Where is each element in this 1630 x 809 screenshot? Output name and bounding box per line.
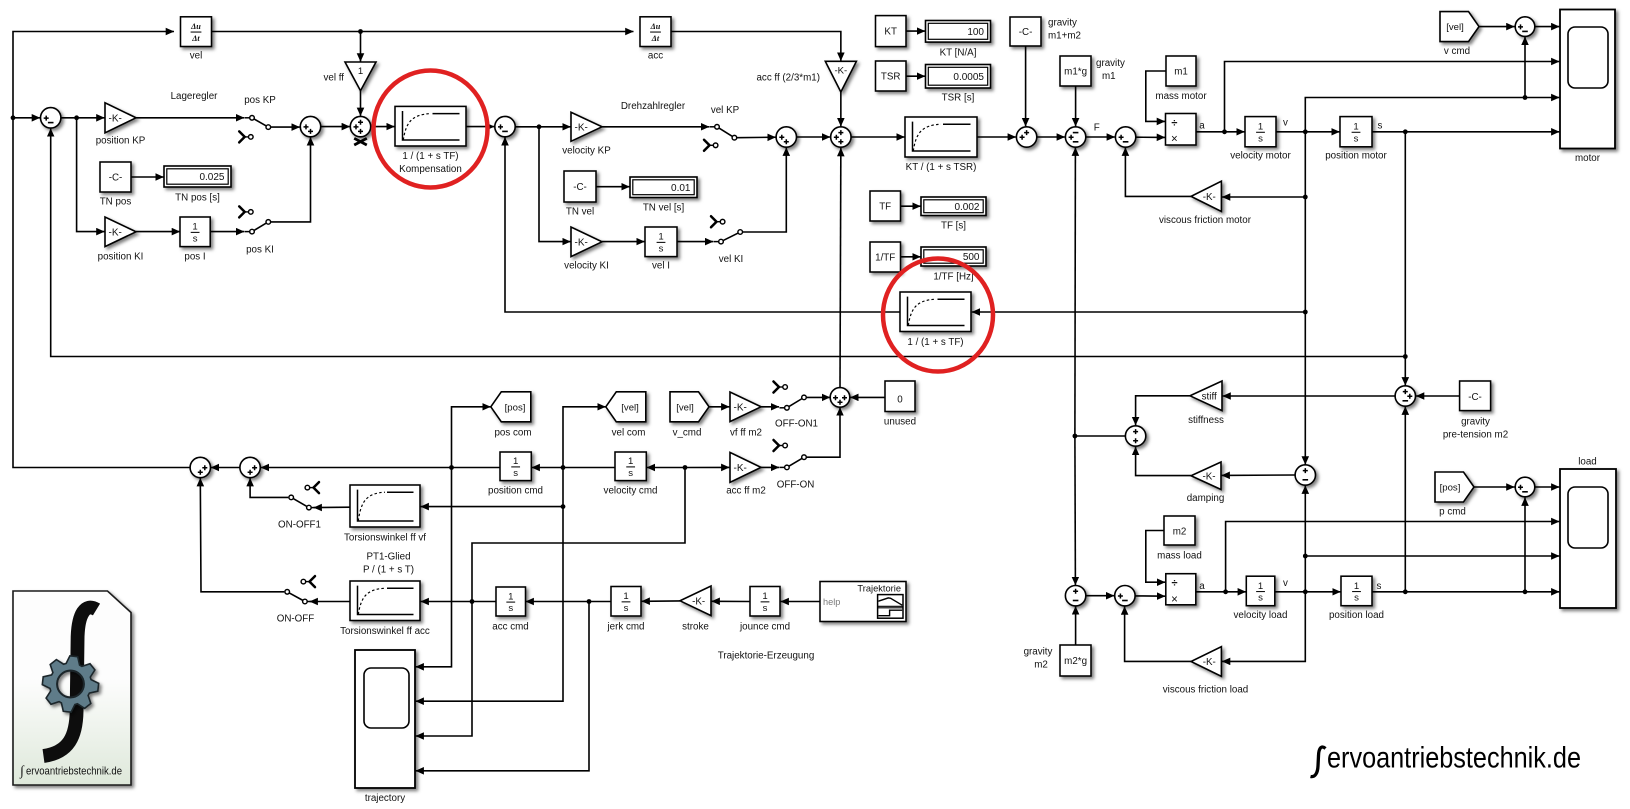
- block: Torsionswinkel ff vf (PT1): [350, 485, 420, 527]
- node: junction v motor: [1303, 129, 1308, 134]
- svg-text:KT [N/A]: KT [N/A]: [940, 48, 977, 59]
- scope: motor: [1560, 10, 1615, 149]
- wire: v load down into viscous friction load gain: [1222, 592, 1305, 662]
- wire: spring-damper sum output left to coupling vertical: [1075, 435, 1126, 437]
- switch: vel KI: [723, 233, 738, 240]
- wire: TN pos constant to display: [131, 176, 164, 178]
- node: top junction above vel ff: [358, 29, 363, 34]
- wire: sum4 to velocity KP: [515, 126, 570, 128]
- svg-text:m1*g: m1*g: [1064, 66, 1087, 77]
- svg-text:-K-: -K-: [109, 113, 122, 124]
- wire: v-compare sum to damping gain: [1222, 474, 1296, 476]
- sum S3: position controller + vel ff: [350, 116, 370, 136]
- node: junction s load: [1403, 589, 1408, 594]
- block: Kompensation 1/(1+s TF): [395, 106, 466, 146]
- wire: junction right into acc ff m2 gain: [685, 466, 729, 468]
- wire: stroke gain to jerk cmd: [642, 600, 680, 602]
- svg-text:Δt: Δt: [191, 34, 200, 43]
- node: junction viscous friction motor tap: [1303, 195, 1308, 200]
- sum S6: current command sum: [831, 127, 851, 147]
- svg-text:PT1-Glied: PT1-Glied: [366, 552, 410, 563]
- sum S1: position error sum: [41, 108, 61, 128]
- svg-text:P / (1 + s T): P / (1 + s T): [363, 565, 414, 576]
- svg-text:gravity: gravity: [1461, 417, 1490, 428]
- block: velocity feedback filter 1/(1+s TF): [900, 292, 971, 332]
- sum S8: minus gravity m1, minus coupling: [1065, 127, 1085, 147]
- wire: OFF-ON right and up into unused sum bottom: [807, 407, 840, 457]
- svg-text:viscous friction load: viscous friction load: [1163, 685, 1249, 696]
- wire: sum1 output to position KP: [61, 117, 105, 119]
- wire: gravity m1+m2 constant down into sum7 top: [1025, 46, 1027, 126]
- svg-text:0.002: 0.002: [954, 202, 979, 213]
- svg-text:Torsionswinkel ff acc: Torsionswinkel ff acc: [340, 626, 430, 637]
- switch: vel KP: [719, 128, 732, 136]
- wire: tap into Torsionswinkel ff vf block: [421, 506, 563, 508]
- svg-text:Δu: Δu: [650, 22, 661, 31]
- gain: position KI: [105, 217, 136, 247]
- constant: 0 (unused): [885, 381, 915, 412]
- gain: acc ff (2/3*m1) (pointing down): [825, 61, 856, 92]
- svg-text:0.025: 0.025: [199, 172, 224, 183]
- svg-text:m2*g: m2*g: [1064, 656, 1087, 667]
- svg-text:Kompensation: Kompensation: [399, 164, 462, 175]
- svg-text:[pos]: [pos]: [505, 402, 526, 413]
- svg-text:s: s: [513, 468, 518, 479]
- wire: m1*g down into sum8 top: [1075, 86, 1077, 126]
- wire: load force sum1 to sum2: [1086, 595, 1114, 597]
- wire: acc block to acc ff gain: [671, 32, 841, 61]
- svg-text:s: s: [1354, 133, 1359, 144]
- tag: vel com [vel] (Goto): [606, 392, 646, 422]
- node: junction velocity feedback tap: [1303, 310, 1308, 315]
- switch: pos KP: [254, 119, 266, 126]
- display: TN pos [s] = 0.025: [164, 166, 231, 187]
- svg-text:load: load: [1578, 456, 1597, 467]
- svg-text:1/TF [Hz]: 1/TF [Hz]: [933, 272, 974, 283]
- svg-text:KT / (1 + s TSR): KT / (1 + s TSR): [906, 162, 977, 173]
- block: pos I integrator: [180, 217, 210, 247]
- svg-text:gravity: gravity: [1096, 58, 1125, 69]
- tag: v_cmd [vel] (From): [670, 392, 709, 422]
- svg-text:velocity cmd: velocity cmd: [604, 486, 658, 497]
- svg-text:position load: position load: [1329, 610, 1384, 621]
- svg-text:m1: m1: [1102, 71, 1116, 82]
- svg-text:÷: ÷: [1171, 578, 1177, 590]
- block: velocity cmd integrator: [615, 452, 646, 481]
- svg-text:1: 1: [508, 591, 513, 602]
- svg-text:stiffness: stiffness: [1188, 415, 1224, 426]
- svg-text:[vel]: [vel]: [1446, 22, 1464, 33]
- svg-text:s: s: [659, 243, 664, 254]
- svg-text:acc ff m2: acc ff m2: [726, 486, 766, 497]
- svg-text:vel: vel: [190, 51, 203, 62]
- svg-text:s: s: [508, 603, 513, 614]
- node: junction coupling force: [1073, 434, 1078, 439]
- svg-text:1: 1: [658, 232, 663, 243]
- svg-text:pre-tension m2: pre-tension m2: [1443, 430, 1508, 441]
- wire: v_cmd tag into vf ff m2 gain: [709, 406, 729, 408]
- gain: damping (pointing left): [1191, 462, 1221, 490]
- svg-text:ervoantriebstechnik.de: ervoantriebstechnik.de: [26, 766, 122, 778]
- red highlight circle around Kompensation: [374, 71, 488, 188]
- svg-text:×: ×: [1171, 134, 1178, 146]
- block: jounce cmd integrator: [750, 587, 780, 617]
- switch: ON-OFF (mirrored): [289, 593, 302, 600]
- wire: branch down to velocity KI: [539, 127, 571, 242]
- sum SU: unused feed-forward sum: [830, 388, 850, 408]
- svg-text:s: s: [763, 603, 768, 614]
- wire: vel KP switch to sum5 left: [737, 136, 776, 139]
- wire: velocity load to position load (v): [1275, 591, 1341, 593]
- svg-text:-K-: -K-: [109, 227, 122, 238]
- constant: TF: [870, 191, 901, 221]
- node: junction a load: [1223, 589, 1228, 594]
- block: Trajektorie source with help link: [820, 582, 906, 622]
- block: KT / (1 + s TSR): [905, 117, 977, 157]
- wire: pos cmd down into trajectory scope input 1: [416, 468, 452, 667]
- svg-text:pos KP: pos KP: [244, 95, 276, 106]
- wire: OFF-ON1 to unused sum left: [807, 396, 830, 398]
- wire: m2*g up into load force sum1 bottom: [1075, 606, 1077, 644]
- svg-text:-C-: -C-: [109, 173, 123, 184]
- svg-text:position KP: position KP: [96, 136, 146, 147]
- wire: KT constant to display: [906, 30, 925, 32]
- wire: vel cmd down to torsion branch and trajectory input 2: [416, 468, 563, 702]
- svg-text:vel KP: vel KP: [711, 105, 740, 116]
- svg-text:s: s: [193, 233, 198, 244]
- svg-text:Drehzahlregler: Drehzahlregler: [621, 101, 686, 112]
- svg-text:gravity: gravity: [1048, 18, 1077, 29]
- wire: command feed to top-left (pos cmd up the left edge into vel differentiator): [13, 32, 190, 468]
- node: junction vel cmd: [561, 465, 566, 470]
- sum S2: pos KP + pos KI: [300, 116, 320, 136]
- svg-text:vel KI: vel KI: [719, 254, 744, 265]
- svg-text:position KI: position KI: [98, 252, 144, 263]
- svg-text:v_cmd: v_cmd: [673, 427, 702, 438]
- wire: acc ff m2 gain to OFF-ON switch: [761, 466, 779, 468]
- svg-text:s: s: [1258, 133, 1263, 144]
- switch: OFF-ON1: [789, 399, 802, 407]
- wire: sum5 to sum6: [797, 136, 831, 138]
- display: TSR [s] = 0.0005: [926, 65, 991, 89]
- wire: position KP to pos KP switch: [136, 117, 244, 119]
- constant: m2 (mass load): [1164, 516, 1195, 545]
- switch: ON-OFF1 (mirrored): [293, 499, 306, 507]
- wire: tap into viscous friction motor gain: [1222, 196, 1305, 198]
- svg-text:motor: motor: [1575, 153, 1601, 164]
- node: junction after sum1: [74, 115, 79, 120]
- wire: velocity KP to vel KP switch: [602, 126, 709, 128]
- wire: TSR constant to display: [906, 75, 925, 77]
- svg-text:a: a: [1199, 121, 1205, 132]
- svg-text:s: s: [1354, 593, 1359, 604]
- wire: velocity motor to position motor (v): [1276, 131, 1340, 133]
- svg-text:v: v: [1283, 118, 1288, 129]
- svg-text:1: 1: [628, 456, 633, 467]
- svg-text:s: s: [628, 468, 633, 479]
- tag: pos com [pos] (Goto): [491, 392, 531, 422]
- wire: viscous friction load into load force sum2 bottom: [1125, 607, 1191, 662]
- svg-text:Δt: Δt: [651, 34, 660, 43]
- sum S10: v cmd compare: [1515, 17, 1535, 37]
- sum SF1: load force sum (coupling - gravity): [1065, 586, 1085, 606]
- svg-text:-C-: -C-: [1019, 27, 1033, 38]
- wire: acc ff gain into sum6 top: [840, 92, 842, 126]
- svg-text:velocity motor: velocity motor: [1230, 151, 1291, 162]
- wire: load product output (a) to velocity load: [1196, 591, 1246, 593]
- wire: sum2 to sum3: [321, 126, 350, 128]
- svg-text:vel com: vel com: [612, 427, 646, 438]
- sum S9: minus viscous friction motor: [1115, 127, 1135, 147]
- wire: acc signal into velocity cmd integrator: [647, 467, 685, 469]
- gain: stiffness (pointing left): [1190, 381, 1222, 411]
- wire: pos cmd up into pos com tag: [452, 407, 491, 468]
- logo: big integral glyph: [44, 608, 97, 756]
- wire: acc cmd down into trajectory scope input 3: [416, 602, 472, 737]
- block: position motor integrator: [1340, 117, 1372, 147]
- svg-text:0.0005: 0.0005: [953, 72, 984, 83]
- wire: vel cmd up into vel com tag: [563, 407, 606, 468]
- svg-text:unused: unused: [884, 416, 916, 427]
- svg-text:-K-: -K-: [1203, 192, 1216, 203]
- svg-text:s: s: [1377, 581, 1382, 592]
- logo: servoantriebstechnik.de card: [13, 591, 131, 785]
- svg-text:jounce cmd: jounce cmd: [739, 622, 790, 633]
- block: vel I integrator: [645, 227, 677, 257]
- constant: TN pos (-C-): [100, 162, 131, 192]
- svg-text:1: 1: [1258, 581, 1263, 592]
- display: TN vel [s] = 0.01: [630, 177, 697, 198]
- node: junction torsion ff vf tap: [561, 504, 566, 509]
- wire: product output (a) to velocity motor: [1196, 131, 1245, 133]
- wire: sum7 to sum8: [1037, 136, 1065, 138]
- display: KT [N/A] = 100: [926, 21, 991, 43]
- svg-text:position motor: position motor: [1325, 151, 1387, 162]
- sum SD: stiffness + damping: [1125, 426, 1145, 446]
- wire: s load up into position compare sum bottom: [1404, 407, 1406, 592]
- constant: 1/TF: [870, 242, 901, 272]
- svg-text:a: a: [1199, 581, 1205, 592]
- wire: s motor down to position compare sum top: [1404, 132, 1406, 386]
- node: junction pos cmd: [449, 465, 454, 470]
- wire: sum10 to motor scope input 1: [1535, 26, 1559, 28]
- svg-text:pos KI: pos KI: [246, 245, 274, 256]
- gain: viscous friction motor (pointing left): [1191, 181, 1221, 211]
- svg-text:[vel]: [vel]: [676, 402, 694, 413]
- svg-text:TF: TF: [879, 201, 891, 212]
- svg-text:pos I: pos I: [184, 252, 205, 263]
- node: junction acc cmd: [470, 599, 475, 604]
- gain: velocity KI: [571, 227, 602, 257]
- block: product a = F/m2 (load): [1166, 574, 1196, 605]
- wire: vel ff gain into sum3 top: [360, 91, 362, 116]
- block: position load integrator: [1341, 576, 1372, 606]
- wire: v load into load scope input 3: [1305, 555, 1559, 557]
- wire: pos KP switch to sum2 left: [271, 126, 300, 128]
- wire: 0 constant into unused sum right: [850, 396, 884, 398]
- svg-text:velocity KP: velocity KP: [562, 146, 611, 157]
- wire: TN vel constant to display: [596, 186, 630, 188]
- svg-text:-K-: -K-: [734, 463, 747, 474]
- wire: viscous friction motor into sum9 bottom: [1125, 148, 1191, 197]
- svg-text:-K-: -K-: [1202, 471, 1215, 482]
- svg-text:-C-: -C-: [1468, 392, 1482, 403]
- wire: Kompensation to sum4: [466, 126, 494, 128]
- wire: velocity KI to vel I: [602, 241, 645, 243]
- constant: KT: [876, 16, 907, 47]
- svg-text:position cmd: position cmd: [488, 486, 543, 497]
- svg-text:acc: acc: [648, 51, 663, 62]
- svg-text:1/TF: 1/TF: [875, 252, 895, 263]
- svg-text:Torsionswinkel ff vf: Torsionswinkel ff vf: [344, 533, 426, 544]
- wire: branch down to position KI: [77, 118, 105, 232]
- svg-text:1 / (1 + s TF): 1 / (1 + s TF): [907, 337, 963, 348]
- wire: s load up into sum11 bottom: [1524, 498, 1526, 592]
- tag: v cmd [vel] (From): [1440, 12, 1479, 42]
- wire: jerk cmd output to acc cmd: [526, 601, 611, 603]
- node: junction s motor: [1403, 129, 1408, 134]
- terminator X below sum S3: [354, 138, 367, 145]
- constant: m1 (mass motor): [1166, 56, 1196, 86]
- wire: stiffness gain down into spring-damper sum top: [1136, 396, 1190, 425]
- block: jerk cmd integrator: [611, 587, 641, 617]
- wire: ON-OFF left and up into sumA bottom: [200, 478, 284, 592]
- svg-text:100: 100: [967, 27, 984, 38]
- svg-text:1: 1: [1258, 122, 1263, 133]
- node: junction after sum4: [537, 124, 542, 129]
- wire: vel KI switch up into sum5 bottom: [743, 148, 787, 232]
- text: servoantriebstechnik.de signature bottom right: [1311, 747, 1326, 777]
- wire: vf ff m2 gain to OFF-ON1 switch: [761, 406, 779, 408]
- wire: velocity cmd output to position cmd integrator: [532, 467, 615, 469]
- svg-text:-K-: -K-: [692, 596, 705, 607]
- wire: filter output left and up into sum4 bottom: [505, 137, 900, 312]
- wire: jerk cmd down into trajectory scope input 4: [416, 602, 589, 771]
- svg-text:TN pos: TN pos: [100, 197, 132, 208]
- svg-text:viscous friction motor: viscous friction motor: [1159, 215, 1252, 226]
- wire: v cmd tag into sum10: [1479, 26, 1515, 28]
- wire: v up into motor scope input 3: [1305, 98, 1559, 132]
- svg-text:OFF-ON1: OFF-ON1: [775, 418, 818, 429]
- wire: sum6 to KT/(1+s TSR) block: [851, 136, 905, 138]
- svg-text:-K-: -K-: [734, 402, 747, 413]
- sum SB: command + torsion vf correction: [240, 457, 260, 477]
- svg-text:Trajektorie-Erzeugung: Trajektorie-Erzeugung: [718, 651, 815, 662]
- svg-text:stiff: stiff: [1202, 391, 1217, 402]
- svg-text:v cmd: v cmd: [1444, 46, 1470, 57]
- sum S5: velocity controller sum: [776, 127, 796, 147]
- sum S11: p cmd compare: [1515, 477, 1535, 497]
- block: Torsionswinkel ff acc (PT1): [350, 581, 420, 621]
- svg-text:s: s: [1258, 593, 1263, 604]
- block: position cmd integrator: [500, 452, 531, 481]
- block: product a = F/m1 (motor): [1166, 114, 1197, 146]
- svg-text:ervoantriebstechnik.de: ervoantriebstechnik.de: [1327, 742, 1581, 775]
- tag: p cmd [pos] (From): [1435, 472, 1474, 502]
- sum SV: v-compare (v motor - v load): [1295, 465, 1315, 485]
- svg-text:OFF-ON: OFF-ON: [777, 479, 815, 490]
- node: junction acc to ff branch: [683, 465, 688, 470]
- svg-text:1: 1: [762, 591, 767, 602]
- constant: gravity pre-tension m2 (-C-): [1460, 381, 1491, 411]
- svg-text:[vel]: [vel]: [621, 402, 639, 413]
- scope: load: [1560, 469, 1616, 608]
- svg-text:p cmd: p cmd: [1439, 507, 1466, 518]
- svg-text:m2: m2: [1034, 660, 1048, 671]
- wire: v up into sum10 bottom: [1524, 37, 1526, 98]
- wire: position cmd output to sumB: [261, 467, 500, 469]
- svg-text:m1+m2: m1+m2: [1048, 31, 1081, 42]
- wire: velocity feedback into 1/(1+s TF) filter (right to left): [972, 311, 1306, 313]
- svg-text:KT: KT: [884, 27, 897, 38]
- switch: OFF-ON: [789, 459, 802, 467]
- wire: acc cmd output into Torsionswinkel ff acc: [421, 601, 496, 603]
- node: junction v load scope tap: [1303, 554, 1308, 559]
- node: junction on left edge into sum1: [11, 115, 16, 120]
- svg-text:-K-: -K-: [1203, 657, 1216, 668]
- svg-text:TSR [s]: TSR [s]: [942, 93, 975, 104]
- wire: a up into motor scope input 2: [1225, 62, 1560, 132]
- svg-text:1 / (1 + s TF): 1 / (1 + s TF): [402, 151, 458, 162]
- svg-text:1: 1: [1353, 122, 1358, 133]
- svg-text:acc ff (2/3*m1): acc ff (2/3*m1): [756, 73, 820, 84]
- wire: junction into sum1 left input: [13, 117, 40, 119]
- wire: a load up into load scope input 2: [1226, 522, 1560, 592]
- svg-text:help: help: [823, 597, 840, 607]
- node: junction v err tap: [1523, 95, 1528, 100]
- svg-text:mass load: mass load: [1157, 551, 1202, 562]
- red highlight circle around feedback filter: [883, 259, 993, 372]
- wire: Trajektorie block to jounce cmd: [781, 601, 820, 603]
- svg-text:TN vel [s]: TN vel [s]: [643, 203, 685, 214]
- switch: pos KI: [254, 223, 266, 230]
- wire: Torsionswinkel ff vf to ON-OFF1 switch: [314, 506, 350, 508]
- svg-text:vel ff: vel ff: [323, 73, 344, 84]
- gain: position KP: [105, 103, 136, 133]
- svg-text:s: s: [624, 603, 629, 614]
- wire: sum8 to sum9 (force F): [1086, 136, 1115, 138]
- svg-text:-K-: -K-: [575, 122, 588, 133]
- sum SF2: load force sum (minus viscous friction): [1115, 586, 1135, 606]
- svg-text:-K-: -K-: [575, 237, 588, 248]
- svg-text:mass motor: mass motor: [1155, 91, 1207, 102]
- svg-text:m1: m1: [1174, 66, 1188, 77]
- constant: TSR: [876, 61, 907, 91]
- svg-text:gravity: gravity: [1024, 647, 1053, 658]
- wire: junction down into vel ff gain: [360, 32, 362, 62]
- svg-text:TF [s]: TF [s]: [941, 221, 966, 232]
- gain: vel ff (value 1, pointing down): [345, 62, 376, 91]
- wire: p cmd tag into sum11: [1474, 486, 1515, 488]
- sum SS: position compare (s motor - s load): [1395, 386, 1415, 406]
- block U1: Delta u / Delta t (vel): [181, 17, 212, 47]
- gain: viscous friction load (pointing left): [1191, 647, 1221, 677]
- svg-text:1: 1: [358, 66, 363, 77]
- display: TF [s] = 0.002: [921, 197, 986, 216]
- svg-text:1: 1: [513, 456, 518, 467]
- svg-text:[pos]: [pos]: [1440, 483, 1461, 494]
- wire: sumB to sumA: [211, 467, 240, 469]
- node: junction jerk cmd: [587, 599, 592, 604]
- wire: Torsionswinkel ff acc to ON-OFF switch: [310, 601, 350, 603]
- block: velocity motor integrator: [1245, 117, 1276, 147]
- gain: velocity KP: [571, 112, 602, 141]
- wire: pos I to pos KI switch: [210, 231, 244, 233]
- wire: position KI to pos I integrator: [136, 231, 180, 233]
- wire: coupling force down into load force sum top: [1074, 436, 1077, 585]
- node: junction s load 2: [1523, 589, 1528, 594]
- svg-text:×: ×: [1171, 594, 1178, 606]
